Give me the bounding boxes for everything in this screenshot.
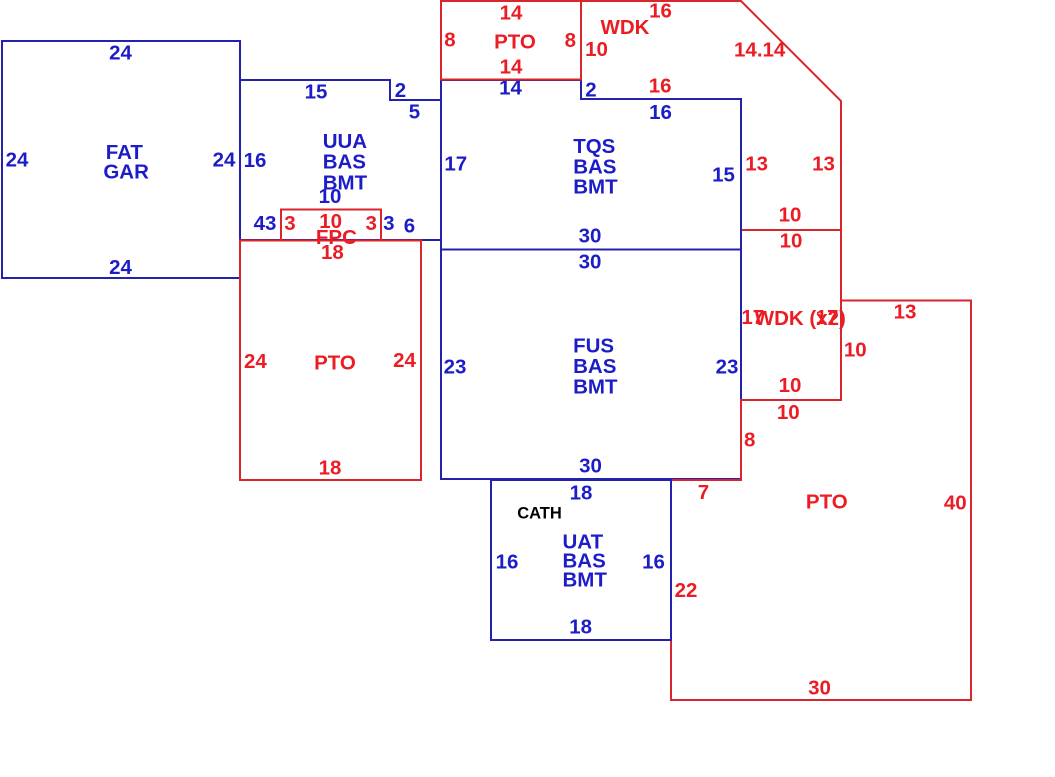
svg-text:43: 43 — [254, 212, 277, 235]
room WDK outline — [581, 1, 841, 230]
svg-text:24: 24 — [213, 149, 236, 172]
svg-text:BAS: BAS — [573, 355, 616, 378]
svg-text:14: 14 — [500, 56, 523, 79]
room PTO left outline — [240, 241, 421, 481]
svg-text:PTO: PTO — [806, 491, 848, 514]
room TQS BAS BMT outline — [441, 80, 741, 250]
svg-text:FUS: FUS — [573, 334, 614, 357]
svg-text:24: 24 — [109, 256, 132, 279]
svg-text:PTO: PTO — [494, 30, 536, 53]
room PTO right outline — [671, 301, 971, 701]
svg-text:10: 10 — [585, 38, 608, 61]
svg-text:3: 3 — [284, 212, 295, 235]
svg-text:10: 10 — [780, 230, 803, 253]
svg-text:BAS: BAS — [323, 151, 366, 174]
svg-text:18: 18 — [570, 482, 593, 505]
svg-text:3: 3 — [365, 212, 376, 235]
svg-text:30: 30 — [579, 225, 602, 248]
svg-text:8: 8 — [565, 29, 576, 52]
room WDK (x2) outline — [741, 230, 841, 400]
svg-text:BMT: BMT — [573, 176, 618, 199]
svg-text:40: 40 — [944, 491, 967, 514]
svg-text:18: 18 — [319, 456, 342, 479]
svg-text:22: 22 — [675, 579, 698, 602]
svg-text:14: 14 — [500, 2, 523, 25]
svg-text:7: 7 — [698, 481, 709, 504]
svg-text:16: 16 — [649, 101, 672, 124]
svg-text:10: 10 — [779, 203, 802, 226]
svg-text:17: 17 — [444, 153, 467, 176]
room PTO top outline — [441, 1, 581, 80]
svg-text:BMT: BMT — [563, 569, 608, 592]
svg-text:BMT: BMT — [573, 376, 618, 399]
svg-text:5: 5 — [409, 101, 420, 124]
svg-text:WDK: WDK — [601, 16, 650, 39]
svg-text:10: 10 — [779, 374, 802, 397]
svg-text:16: 16 — [496, 551, 519, 574]
svg-text:8: 8 — [744, 429, 755, 452]
svg-text:8: 8 — [444, 29, 455, 52]
svg-text:24: 24 — [244, 350, 267, 373]
svg-text:2: 2 — [395, 79, 406, 102]
svg-text:10: 10 — [844, 339, 867, 362]
svg-text:23: 23 — [444, 355, 467, 378]
svg-text:14.14: 14.14 — [734, 38, 786, 61]
svg-text:16: 16 — [649, 0, 672, 23]
svg-text:30: 30 — [579, 455, 602, 478]
svg-text:TQS: TQS — [573, 135, 615, 158]
svg-text:16: 16 — [244, 149, 267, 172]
svg-text:2: 2 — [585, 79, 596, 102]
room UUA BAS BMT outline — [240, 80, 441, 240]
svg-text:23: 23 — [716, 355, 739, 378]
svg-text:13: 13 — [812, 153, 835, 176]
svg-text:6: 6 — [404, 215, 415, 238]
room UAT BAS BMT outline — [491, 480, 671, 640]
svg-text:15: 15 — [712, 164, 735, 187]
svg-text:15: 15 — [305, 80, 328, 103]
svg-text:24: 24 — [6, 149, 29, 172]
svg-text:17: 17 — [816, 306, 839, 329]
svg-text:18: 18 — [569, 615, 592, 638]
svg-text:24: 24 — [393, 349, 416, 372]
svg-text:30: 30 — [579, 250, 602, 273]
room FUS BAS BMT outline — [441, 250, 741, 480]
svg-text:24: 24 — [109, 42, 132, 65]
svg-text:14: 14 — [499, 77, 522, 100]
room FAT GAR outline — [2, 41, 240, 278]
svg-text:18: 18 — [321, 241, 344, 264]
svg-text:30: 30 — [808, 677, 831, 700]
svg-text:13: 13 — [745, 153, 768, 176]
svg-text:PTO: PTO — [314, 351, 356, 374]
svg-text:10: 10 — [777, 401, 800, 424]
svg-text:16: 16 — [649, 75, 672, 98]
svg-text:13: 13 — [894, 301, 917, 324]
svg-text:GAR: GAR — [103, 161, 149, 184]
svg-text:CATH: CATH — [517, 505, 562, 523]
svg-text:3: 3 — [383, 212, 394, 235]
svg-text:16: 16 — [642, 551, 665, 574]
FPC outline — [281, 210, 381, 241]
svg-text:10: 10 — [319, 185, 342, 208]
